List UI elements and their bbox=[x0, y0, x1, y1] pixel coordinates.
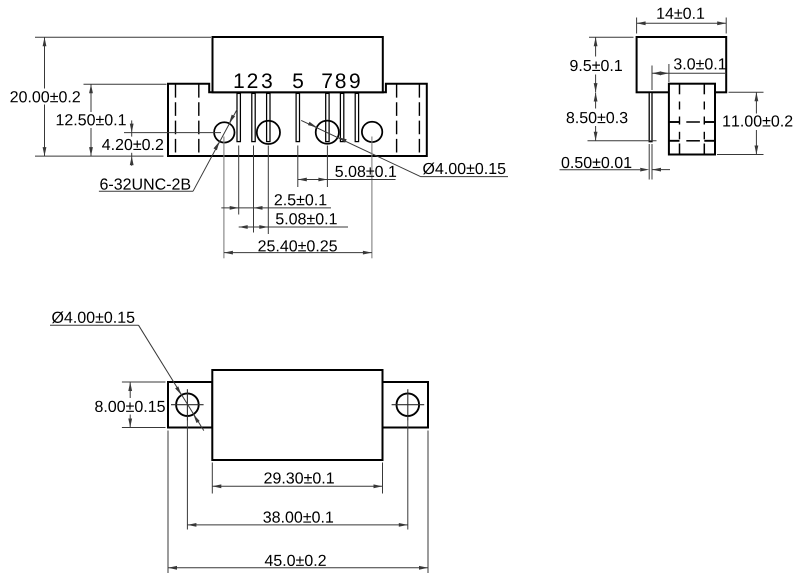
dimension 25.40+-0.25 (mounting hole spacing) bbox=[224, 240, 372, 254]
dimension 5.08+-0.1 (pin5 to pin7) bbox=[298, 166, 396, 182]
extension line body right corner bbox=[382, 463, 384, 494]
pin 5 bbox=[296, 93, 299, 141]
bottom view left flange bbox=[168, 382, 212, 428]
dimension 38.00+-0.1 (hole spacing) bbox=[187, 511, 407, 526]
extension lines pin width bbox=[649, 144, 652, 180]
hidden slot line left-b bbox=[198, 84, 200, 156]
dimension 14+-0.1 (cap width) bbox=[637, 8, 727, 26]
extension line body left corner bbox=[211, 463, 213, 494]
side view pin lead bbox=[649, 93, 652, 142]
dimension 0.50+-0.01 (pin thickness) bbox=[560, 157, 671, 172]
pin 8 bbox=[340, 93, 343, 141]
side slot edge lower bbox=[669, 140, 715, 142]
hole center reference line (4.20 dim) bbox=[124, 132, 221, 134]
dimension 3.0+-0.1 (pin to body) bbox=[652, 58, 726, 75]
hole 2 (diam 4.00), front view bbox=[257, 121, 280, 144]
extension line body bottom left bbox=[35, 155, 164, 157]
bottom view right hole bbox=[397, 393, 420, 416]
dimension 9.5+-0.1 (cap height) bbox=[570, 37, 622, 92]
center line hole right bbox=[371, 137, 373, 259]
bottom view left hole bbox=[176, 393, 199, 416]
crosshair right hole bbox=[392, 389, 425, 420]
diameter callout 4.00+-0.15 front with leader bbox=[301, 120, 508, 176]
dimension 8.00+-0.15 (flange width) bbox=[95, 382, 165, 428]
dimension 11.00+-0.2 (base height) bbox=[723, 92, 792, 154]
extension line pin 2 bbox=[253, 146, 255, 233]
extension line flange left edge bbox=[167, 431, 169, 574]
extension line pin 7 bbox=[326, 146, 328, 188]
dimension 20.00+-0.2 (overall height) bbox=[10, 37, 79, 156]
front view cap (header block) bbox=[213, 37, 383, 92]
hole 3 (diam 4.00), front view bbox=[316, 121, 339, 144]
extension line flange right edge bbox=[427, 431, 429, 574]
crosshair left hole bbox=[171, 389, 204, 420]
side hidden line b bbox=[703, 84, 705, 155]
side slot edge upper bbox=[669, 121, 715, 123]
front view body (flanged base outline) bbox=[168, 84, 427, 156]
extension line pin 3 bbox=[267, 146, 269, 235]
extension lines 11.00 dim bbox=[717, 92, 764, 154]
mounting hole right (6-32 thread), front view bbox=[362, 122, 382, 142]
dimension 4.20+-0.2 (hole center height) bbox=[102, 120, 163, 165]
hidden slot line right-b bbox=[418, 84, 420, 156]
extension lines 3.0 dim bbox=[652, 64, 669, 90]
side hidden line a bbox=[679, 84, 681, 155]
extension lines cap width bbox=[637, 18, 727, 34]
extension line 8.50 bottom bbox=[588, 140, 657, 142]
bottom view right flange bbox=[383, 382, 429, 428]
extension line body top left bbox=[84, 83, 167, 85]
pin 9 bbox=[355, 93, 358, 141]
side view cap bbox=[637, 37, 727, 92]
dimension 2.5+-0.1 (pin pitch) bbox=[221, 194, 331, 210]
diameter callout 4.00+-0.15 bottom with leader bbox=[50, 311, 204, 430]
dimension 45.0+-0.2 (overall length) bbox=[168, 555, 428, 570]
thread callout 6-32UNC-2B with leader bbox=[99, 110, 237, 192]
extension line cap top left bbox=[589, 36, 634, 38]
pin 3 bbox=[267, 93, 270, 141]
hidden slot line left-a bbox=[175, 84, 177, 156]
mounting hole left (6-32 thread), front view bbox=[214, 122, 234, 142]
pin 2 bbox=[252, 93, 255, 141]
dimension 8.50+-0.3 (pin length) bbox=[567, 93, 628, 141]
pin 7 bbox=[326, 93, 329, 141]
pin 1 bbox=[237, 93, 240, 141]
side view base body bbox=[669, 84, 715, 155]
dimension 29.30+-0.1 (body width) bbox=[212, 472, 382, 488]
extension line top (cap top) bbox=[35, 36, 211, 38]
extension line pin 5 bbox=[297, 146, 299, 188]
pin number labels 1 2 3 5 7 8 9 bbox=[235, 73, 360, 88]
bottom view main body bbox=[212, 370, 382, 460]
dimension 5.08+-0.1 (pin1 to pin3) bbox=[239, 213, 348, 229]
center line hole left bbox=[223, 137, 225, 259]
extension line right hole center bbox=[407, 421, 409, 530]
extension line left hole center bbox=[186, 421, 188, 530]
extension line pin 1 bbox=[238, 146, 240, 215]
hidden slot line right-a bbox=[396, 84, 398, 156]
dimension 12.50+-0.1 (body height) bbox=[57, 84, 126, 156]
extension lines 8.00 dim bbox=[122, 382, 166, 428]
